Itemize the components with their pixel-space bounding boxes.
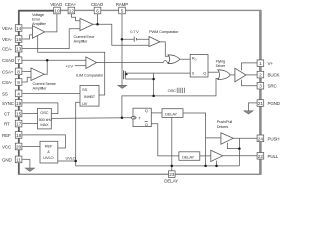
wire clock riser to discharge line: [122, 78, 219, 117]
wire CSA output up to CSAO line: [44, 60, 47, 74]
wire pull driver underside to delay net: [216, 161, 218, 166]
wire UVLO output to delay net: [58, 161, 240, 166]
svg-text:PGND: PGND: [268, 101, 281, 106]
svg-text:SRC: SRC: [268, 84, 278, 89]
latch U7 SR flip-flop: [190, 55, 208, 78]
wire SYNC pin to oscillator: [23, 103, 58, 114]
clock net label OSC with waveform: [168, 88, 185, 93]
wire flying driver output to BUCK pin: [246, 74, 257, 76]
pin 22 PULL: [257, 153, 279, 160]
svg-text:1: 1: [259, 61, 262, 66]
ground below mosfet: [118, 85, 127, 88]
svg-text:D: D: [195, 57, 197, 61]
wire OR output to latch R: [180, 58, 190, 60]
buffer push driver: [221, 133, 233, 144]
pin 1 V+: [257, 60, 273, 67]
pin 24 PUSH: [257, 135, 279, 142]
wire RT pin to oscillator: [23, 123, 38, 125]
junction CSAO node: [46, 59, 49, 62]
wire clock to latch S and mosfet: [128, 73, 190, 96]
op-amp U5 current sense amplifier: [31, 68, 57, 91]
svg-text:VEA-: VEA-: [2, 37, 13, 42]
svg-text:7: 7: [17, 58, 20, 63]
svg-text:VEAO: VEAO: [50, 2, 63, 7]
svg-text:Amplifier: Amplifier: [33, 86, 48, 91]
pin 23 DELAY: [164, 171, 178, 184]
pin 17 RT: [4, 120, 22, 127]
ground below GND pin: [25, 159, 34, 171]
push pull drivers label: [217, 119, 232, 129]
svg-text:19: 19: [16, 101, 22, 106]
svg-text:CSA-: CSA-: [2, 80, 13, 85]
svg-text:5: 5: [121, 9, 124, 14]
IC boundary border: [19, 10, 261, 175]
svg-text:DELAY: DELAY: [165, 111, 177, 116]
pin 4 SS: [2, 90, 22, 97]
svg-text:18: 18: [16, 133, 22, 138]
svg-text:SS: SS: [2, 91, 8, 96]
wire pull driver output to PULL pin: [222, 155, 257, 157]
pin 10 VEAO: [50, 2, 63, 14]
wire T flip-flop Qbar to delay 2: [151, 124, 179, 156]
svg-text:20: 20: [16, 145, 22, 150]
svg-text:BUCK: BUCK: [268, 73, 280, 78]
svg-text:UVLO: UVLO: [43, 155, 53, 160]
wire CEAO node to pin 6 and PWM comparator: [93, 14, 149, 45]
svg-text:OSC: OSC: [168, 88, 176, 93]
wire CSAO pin to ILIM comparator: [22, 59, 86, 61]
svg-text:21: 21: [258, 101, 264, 106]
OR gate U6: [168, 55, 180, 64]
wire VCC pin to REF-UVLO block: [23, 146, 41, 148]
wire UVLO up to UV input: [76, 102, 80, 161]
pin 8 CSA+: [2, 68, 22, 75]
svg-text:DELAY: DELAY: [182, 154, 194, 159]
svg-text:Amplifier: Amplifier: [32, 21, 47, 26]
op-amp U2 current error amplifier: [74, 18, 96, 43]
wire CEA- pin to current error amp: [22, 29, 80, 49]
pin 15 CT: [4, 110, 22, 117]
wire CT pin to oscillator: [23, 113, 38, 115]
svg-text:DELAY: DELAY: [164, 179, 178, 184]
svg-text:GND: GND: [2, 157, 12, 162]
junction delay net at delay1 output: [204, 165, 207, 168]
svg-text:S: S: [192, 70, 195, 75]
svg-text:0.7 V: 0.7 V: [130, 29, 139, 34]
svg-text:10: 10: [54, 9, 60, 14]
svg-text:INHBT: INHBT: [84, 94, 96, 99]
svg-text:SS: SS: [82, 87, 87, 92]
pin 11 GND: [2, 156, 22, 163]
svg-text:24: 24: [258, 136, 264, 141]
pin 5 RAMP: [116, 2, 129, 14]
svg-text:PUSH: PUSH: [268, 136, 280, 141]
svg-text:RAMP: RAMP: [116, 2, 129, 7]
svg-text:RT: RT: [4, 122, 10, 127]
wire VEAO pin down to amp output: [45, 14, 57, 32]
wire SS pin to soft start block: [23, 92, 81, 94]
svg-text:Amplifier: Amplifier: [74, 39, 89, 44]
pin 12 CEA+: [65, 2, 77, 14]
svg-text:PULL: PULL: [268, 154, 279, 159]
oscillator block OSC 500kHz MAX: [38, 108, 53, 128]
svg-text:CSA+: CSA+: [2, 69, 14, 74]
pin 7 CSAO: [2, 57, 22, 64]
wire T flip-flop Q to delay 1: [151, 112, 162, 114]
wire CEA+ pin to current error amp: [71, 14, 80, 21]
junction clock at mosfet gate: [152, 78, 155, 81]
comparator U3 PWM comparator: [149, 29, 179, 47]
wire push output branch to delay net: [227, 138, 239, 166]
svg-text:16: 16: [16, 37, 22, 42]
svg-text:3: 3: [259, 84, 262, 89]
svg-text:UVLO: UVLO: [66, 155, 76, 160]
pin 21 PGND: [257, 100, 281, 107]
junction CEAO node: [96, 23, 99, 26]
junction clock branch: [152, 95, 155, 98]
svg-text:UV: UV: [82, 101, 88, 106]
delay block 2: [179, 152, 200, 161]
svg-text:REF: REF: [2, 133, 11, 138]
svg-text:REF: REF: [45, 143, 53, 148]
svg-text:OSC: OSC: [40, 110, 48, 115]
wire push driver output to PUSH pin: [233, 137, 257, 139]
wire PGND pin to ground: [249, 103, 258, 111]
soft start block SS INHBT UV: [80, 85, 99, 106]
svg-text:Q: Q: [203, 70, 206, 75]
svg-text:SYNC: SYNC: [2, 101, 15, 106]
buffer pull driver: [211, 150, 223, 161]
svg-text:ILIM Comparator: ILIM Comparator: [76, 73, 104, 78]
pin 9 CSA-: [2, 79, 22, 86]
svg-text:8: 8: [17, 69, 20, 74]
svg-text:CEA-: CEA-: [2, 47, 13, 52]
svg-text:VCC: VCC: [2, 145, 12, 150]
pin 2 BUCK: [257, 71, 279, 78]
svg-text:CSAO: CSAO: [2, 58, 15, 63]
svg-text:2: 2: [259, 73, 262, 78]
svg-text:CEA+: CEA+: [65, 2, 77, 7]
pin 20 VCC: [2, 143, 22, 150]
pin 13 CEA-: [2, 45, 22, 52]
wire VEA- pin to voltage error amp: [22, 35, 32, 39]
svg-text:11: 11: [16, 157, 21, 162]
svg-text:Q: Q: [145, 108, 148, 113]
wire delay 1 output to push driver: [183, 113, 221, 166]
svg-text:PWM Comparator: PWM Comparator: [149, 29, 179, 34]
amplifier input polarity marks: [32, 20, 152, 77]
svg-text:9: 9: [17, 80, 20, 85]
svg-text:14: 14: [16, 26, 22, 31]
svg-text:VEA+: VEA+: [2, 26, 14, 31]
wire delay 1 bottom to DELAY pin: [171, 117, 173, 170]
wire V+ pin to flying driver: [242, 63, 258, 71]
svg-text:MAX: MAX: [40, 122, 49, 127]
pin 16 VEA-: [2, 36, 22, 43]
battery 0.7V offset: [130, 29, 139, 42]
op-amp U1 voltage error amplifier: [32, 12, 47, 38]
wire RAMP pin down to 0.7V and mosfet: [122, 14, 149, 70]
svg-text:12: 12: [69, 9, 75, 14]
svg-text:Drivers: Drivers: [217, 124, 228, 129]
wire PWM comparator output to OR gate: [160, 42, 169, 56]
wire ILIM output to OR gate with hop: [97, 61, 169, 63]
transistor Q1 ramp discharge mosfet: [122, 70, 128, 85]
svg-text:Driver: Driver: [216, 63, 226, 68]
svg-text:15: 15: [16, 112, 22, 117]
pin 19 SYNC: [2, 100, 22, 107]
svg-text:Q: Q: [145, 122, 148, 127]
svg-text:4: 4: [17, 91, 20, 96]
AND gate flying driver input: [216, 58, 235, 79]
wires layer: [22, 14, 258, 171]
REF and UVLO block: [40, 141, 76, 163]
wire VEA+ pin to voltage error amp: [22, 27, 32, 29]
T flip-flop U8: [132, 108, 152, 127]
buffer flying driver: [235, 68, 246, 82]
wire delay 2 output to pull driver: [200, 155, 211, 157]
wire REF pin to REF-UVLO block: [22, 135, 65, 148]
svg-text:13: 13: [16, 47, 22, 52]
wire inhibit clamp to VEA underside: [38, 36, 105, 95]
svg-text:17: 17: [16, 122, 22, 127]
junction delay net at DELAY pin: [171, 165, 174, 168]
wire +3V to ILIM comparator: [75, 65, 86, 67]
pin 6 CEAO: [91, 2, 104, 14]
wire CSA- pin to current sense amp: [23, 77, 32, 82]
pin 3 SRC: [257, 82, 277, 89]
svg-text:CEAO: CEAO: [91, 2, 104, 7]
wire CSA+ pin to current sense amp: [23, 70, 32, 72]
ground at PGND: [244, 111, 253, 114]
junction clock at T flip-flop: [121, 116, 124, 119]
wire oscillator clock to T flip-flop: [51, 117, 131, 120]
wire GND pin to ground: [23, 158, 30, 160]
svg-text:CT: CT: [4, 112, 10, 117]
wire latch Q to flying AND gate: [208, 71, 219, 73]
junction UVLO node: [74, 160, 77, 163]
comparator U4 ILIM comparator: [65, 57, 104, 78]
wire SRC pin to flying driver: [242, 80, 258, 86]
junction RAMP node: [121, 38, 124, 41]
delay block 1: [162, 109, 183, 118]
svg-text:23: 23: [169, 172, 175, 177]
junction push output branch: [238, 147, 241, 150]
pin 18 REF: [2, 132, 22, 139]
svg-text:22: 22: [258, 154, 264, 159]
junction delay net at pull driver: [215, 165, 218, 168]
svg-text:V+: V+: [268, 61, 274, 66]
pin 14 VEA+: [2, 25, 22, 32]
svg-text:6: 6: [96, 9, 99, 14]
svg-text:+3 V: +3 V: [65, 64, 73, 69]
